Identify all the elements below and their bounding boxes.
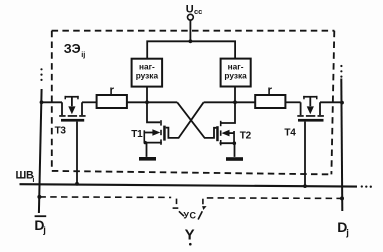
svg-text:T1: T1 [131, 129, 143, 140]
svg-text:U: U [186, 3, 194, 15]
svg-text:УС: УС [183, 211, 196, 221]
svg-text:i: i [32, 175, 34, 184]
svg-text:r: r [109, 85, 114, 97]
svg-text:Y: Y [185, 226, 195, 243]
svg-text:рузка: рузка [136, 71, 159, 81]
svg-text:ij: ij [81, 50, 85, 59]
svg-text:cc: cc [194, 7, 202, 16]
svg-text:j: j [42, 225, 46, 236]
svg-text:ЗЭ: ЗЭ [64, 42, 81, 56]
svg-text:T2: T2 [240, 130, 252, 141]
svg-text:r: r [267, 85, 272, 97]
svg-text:T3: T3 [55, 125, 67, 136]
svg-text:рузка: рузка [224, 71, 247, 81]
svg-text:T4: T4 [284, 127, 296, 138]
svg-text:ШВ: ШВ [16, 169, 35, 181]
svg-text:j: j [345, 227, 349, 238]
